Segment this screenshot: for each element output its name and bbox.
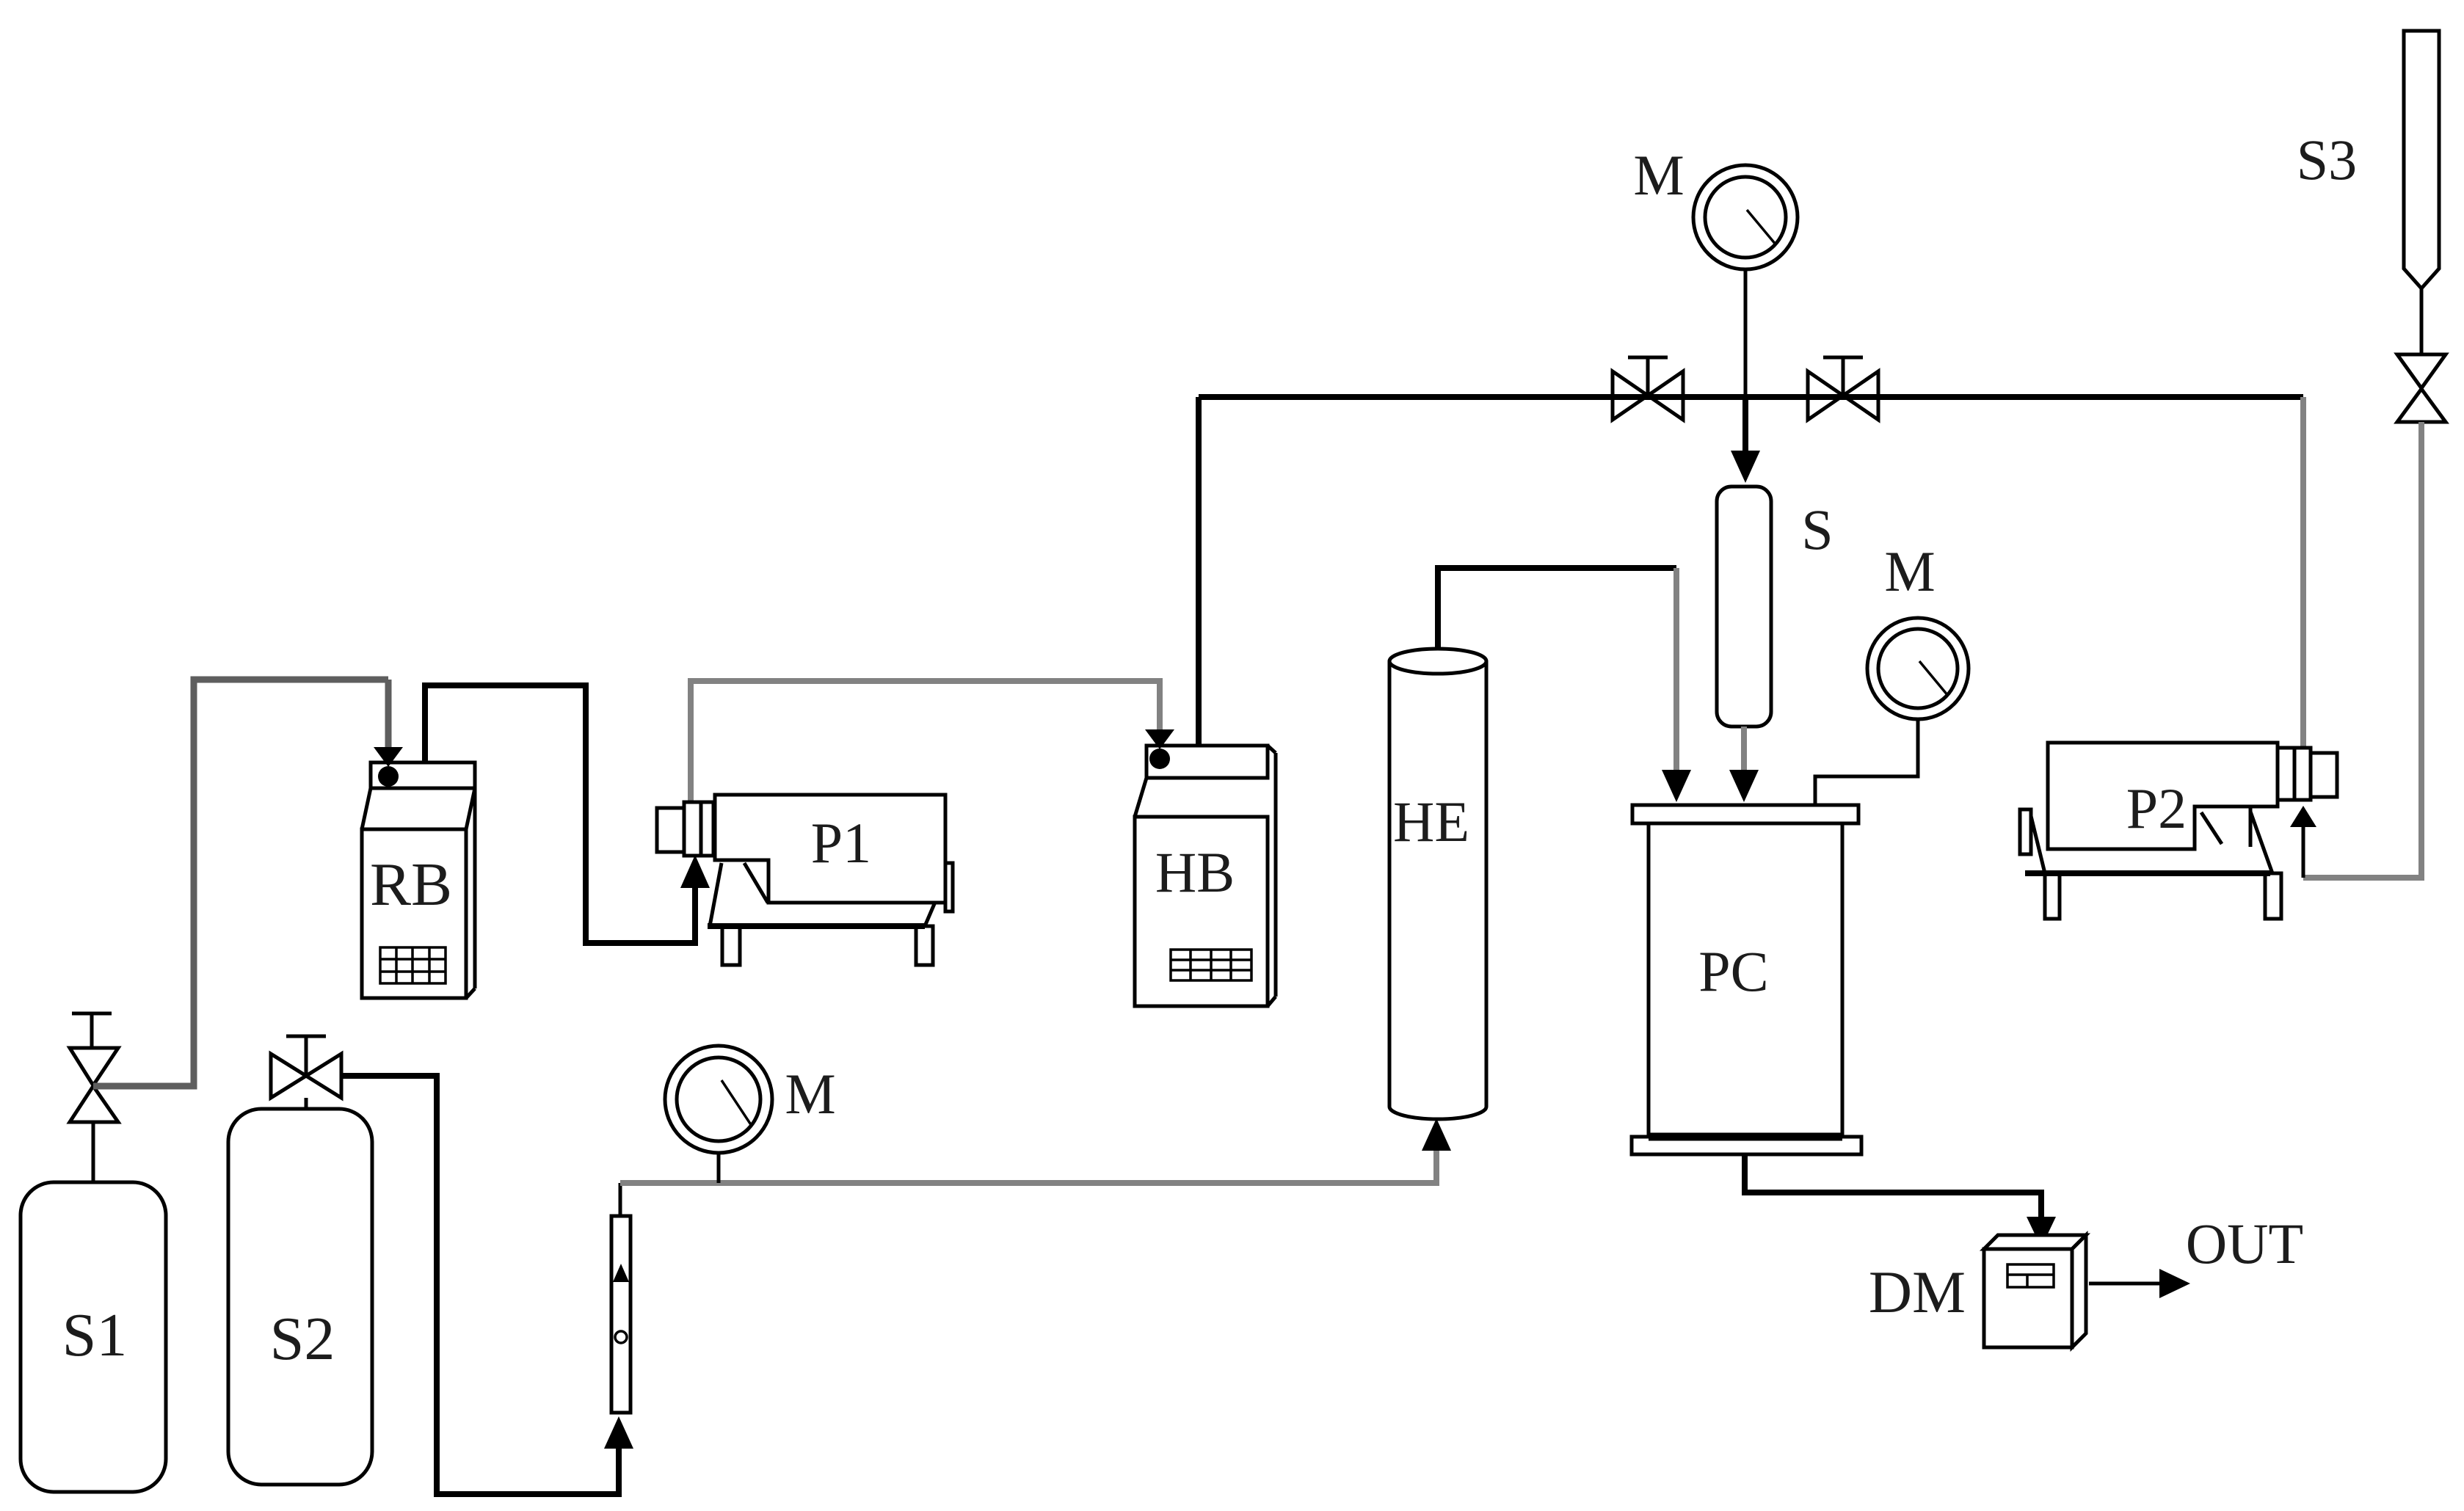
svg-text:P1: P1 [811,811,871,875]
svg-text:OUT: OUT [2186,1212,2303,1275]
svg-text:HE: HE [1393,790,1469,853]
svg-text:HB: HB [1155,840,1235,904]
svg-text:S3: S3 [2297,128,2357,192]
svg-text:PC: PC [1698,939,1768,1003]
svg-text:DM: DM [1869,1259,1966,1325]
svg-text:RB: RB [370,851,452,919]
svg-text:M: M [1884,539,1935,603]
svg-text:S: S [1801,498,1833,561]
svg-text:M: M [785,1062,835,1126]
svg-text:S2: S2 [270,1305,335,1373]
svg-text:S1: S1 [62,1301,128,1369]
svg-text:M: M [1633,143,1684,207]
svg-text:P2: P2 [2126,776,2187,840]
